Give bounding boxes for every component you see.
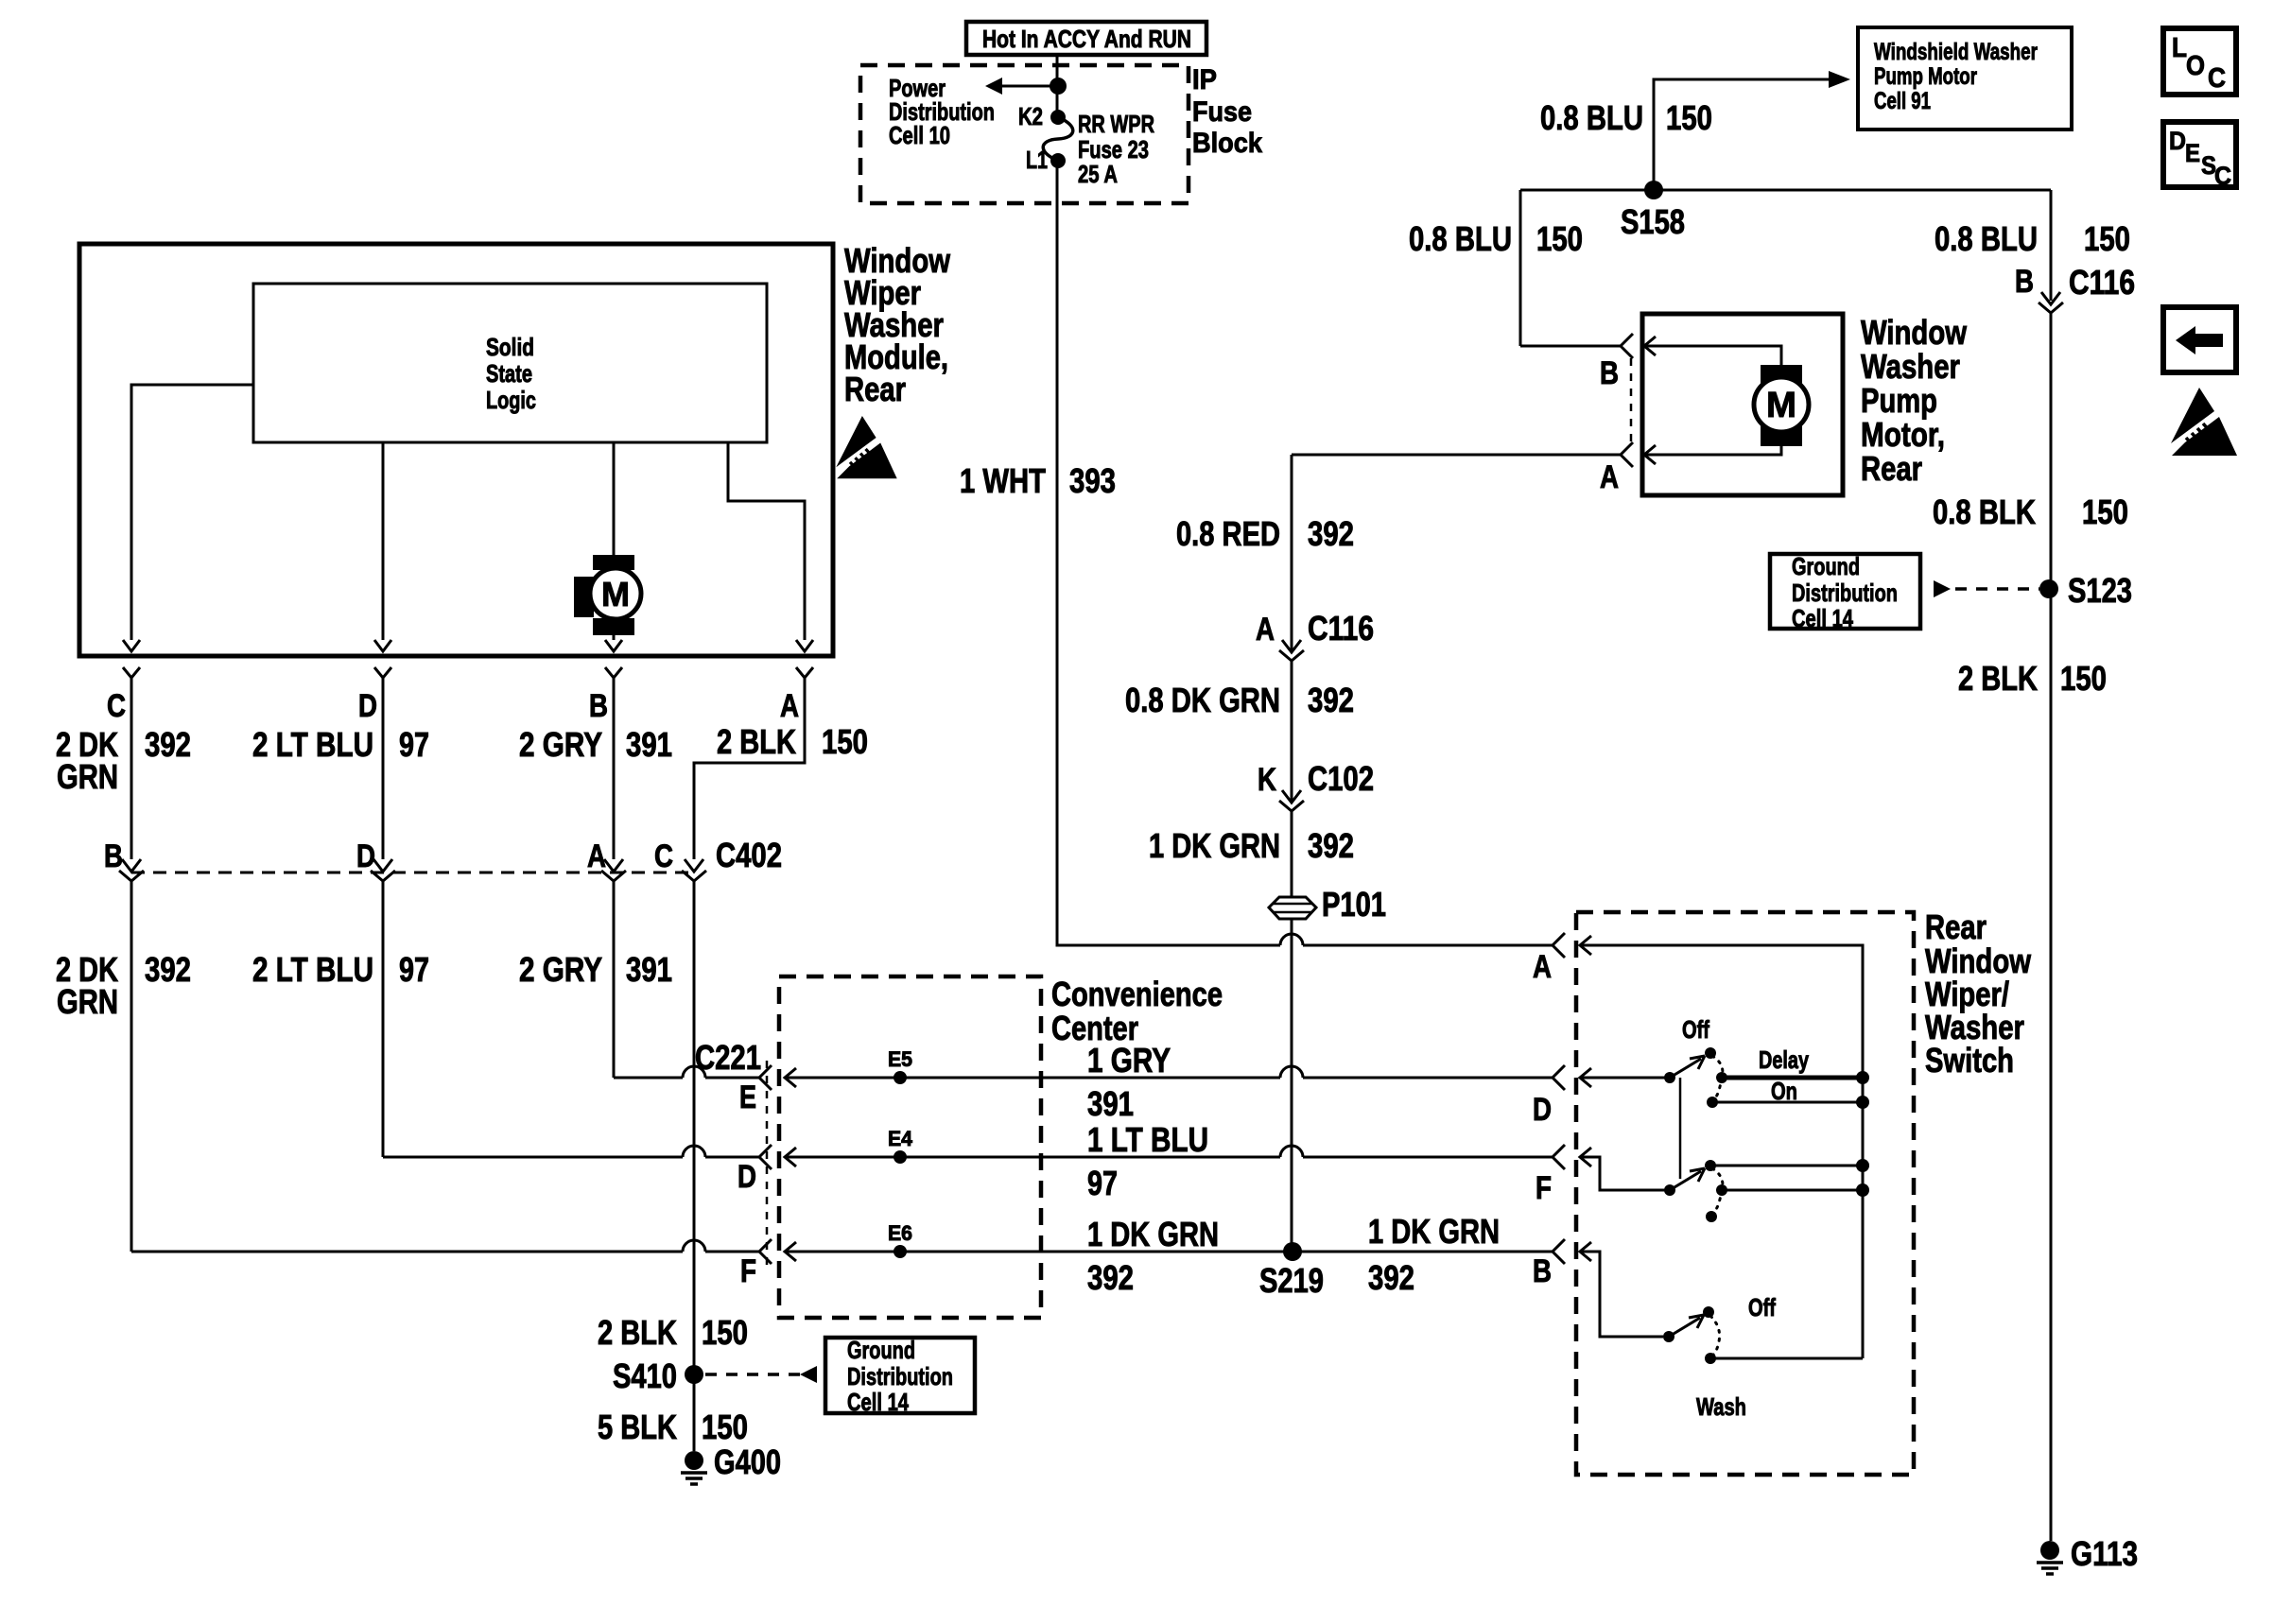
svg-text:1 DK GRN: 1 DK GRN [1368, 1212, 1500, 1251]
svg-text:Ground: Ground [847, 1336, 915, 1364]
svg-text:A: A [1533, 949, 1552, 985]
svg-text:Distribution: Distribution [847, 1362, 953, 1391]
svg-text:IP: IP [1192, 64, 1217, 95]
svg-text:5 BLK: 5 BLK [598, 1408, 677, 1446]
svg-text:A: A [780, 688, 799, 724]
svg-text:B: B [2015, 264, 2034, 300]
svg-text:C: C [107, 688, 126, 724]
svg-text:97: 97 [1087, 1164, 1118, 1202]
svg-text:Wash: Wash [1696, 1392, 1746, 1421]
svg-text:150: 150 [702, 1313, 748, 1352]
svg-text:2 GRY: 2 GRY [519, 725, 602, 764]
svg-text:C: C [2214, 162, 2231, 190]
svg-text:Motor,: Motor, [1861, 415, 1945, 454]
svg-text:0.8 BLU: 0.8 BLU [1540, 98, 1643, 137]
svg-text:E6: E6 [888, 1221, 912, 1245]
svg-text:Cell 14: Cell 14 [1792, 604, 1853, 632]
svg-text:2 BLK: 2 BLK [598, 1313, 677, 1352]
svg-text:1 DK GRN: 1 DK GRN [1149, 826, 1280, 865]
svg-text:Convenience: Convenience [1051, 975, 1223, 1013]
svg-text:150: 150 [2084, 219, 2130, 258]
svg-text:A: A [1256, 612, 1275, 648]
svg-text:Cell 91: Cell 91 [1874, 88, 1931, 114]
svg-text:S219: S219 [1259, 1261, 1324, 1300]
svg-text:GRN: GRN [57, 982, 118, 1021]
svg-text:0.8 BLU: 0.8 BLU [1935, 219, 2038, 258]
svg-text:M: M [601, 575, 630, 613]
svg-text:Solid: Solid [486, 333, 534, 361]
svg-text:B: B [1533, 1253, 1552, 1289]
svg-text:150: 150 [1536, 219, 1583, 258]
svg-text:392: 392 [1308, 826, 1354, 865]
svg-text:D: D [1533, 1092, 1552, 1128]
svg-text:Cell 14: Cell 14 [847, 1388, 909, 1416]
svg-text:0.8 BLK: 0.8 BLK [1933, 492, 2036, 531]
svg-text:L: L [2172, 33, 2187, 63]
svg-text:Block: Block [1192, 128, 1262, 159]
svg-text:2 LT BLU: 2 LT BLU [252, 725, 373, 764]
svg-text:Pump: Pump [1861, 381, 1937, 420]
svg-text:150: 150 [1666, 98, 1712, 137]
svg-text:RR WPR: RR WPR [1078, 110, 1154, 138]
svg-text:Switch: Switch [1925, 1041, 2014, 1080]
svg-text:Distribution: Distribution [1792, 579, 1898, 607]
svg-text:Pump Motor: Pump Motor [1874, 63, 1977, 90]
svg-text:Window: Window [1861, 313, 1968, 352]
svg-text:On: On [1771, 1077, 1797, 1105]
svg-text:2 BLK: 2 BLK [1958, 659, 2038, 698]
svg-text:Washer: Washer [1861, 347, 1960, 386]
svg-text:C: C [2208, 63, 2226, 94]
svg-text:150: 150 [822, 722, 868, 761]
svg-text:C221: C221 [695, 1038, 761, 1077]
svg-text:2 GRY: 2 GRY [519, 950, 602, 989]
svg-text:S410: S410 [613, 1356, 677, 1395]
svg-text:E: E [2185, 139, 2200, 167]
svg-text:D: D [737, 1159, 756, 1195]
svg-text:A: A [1600, 459, 1619, 495]
svg-text:Delay: Delay [1759, 1045, 1809, 1074]
svg-text:2 LT BLU: 2 LT BLU [252, 950, 373, 989]
svg-text:150: 150 [2060, 659, 2107, 698]
svg-text:C402: C402 [716, 836, 782, 874]
svg-text:E: E [739, 1080, 756, 1115]
svg-text:392: 392 [1368, 1258, 1414, 1297]
svg-text:1 WHT: 1 WHT [960, 461, 1046, 500]
svg-text:GRN: GRN [57, 757, 118, 796]
svg-text:Rear: Rear [844, 370, 906, 408]
svg-text:B: B [1600, 355, 1619, 391]
svg-text:1 GRY: 1 GRY [1087, 1041, 1171, 1080]
svg-text:E4: E4 [888, 1127, 913, 1150]
svg-text:D: D [358, 688, 377, 724]
svg-text:A: A [587, 838, 606, 874]
svg-text:392: 392 [145, 950, 191, 989]
svg-text:S123: S123 [2068, 571, 2132, 610]
svg-text:D: D [2169, 127, 2186, 155]
svg-text:K2: K2 [1018, 102, 1043, 130]
svg-text:1 LT BLU: 1 LT BLU [1087, 1120, 1208, 1159]
svg-text:0.8 DK GRN: 0.8 DK GRN [1125, 681, 1280, 719]
svg-text:25 A: 25 A [1078, 160, 1118, 188]
svg-text:Ground: Ground [1792, 552, 1860, 580]
svg-text:393: 393 [1069, 461, 1116, 500]
svg-text:M: M [1766, 386, 1796, 425]
svg-text:C116: C116 [2069, 263, 2135, 302]
svg-text:Cell 10: Cell 10 [889, 121, 950, 149]
svg-text:Logic: Logic [486, 386, 536, 414]
svg-text:Rear: Rear [1861, 449, 1922, 488]
svg-text:150: 150 [2082, 492, 2128, 531]
svg-text:392: 392 [1308, 514, 1354, 553]
svg-text:State: State [486, 359, 532, 388]
svg-text:97: 97 [399, 725, 429, 764]
svg-text:O: O [2186, 51, 2205, 81]
svg-text:150: 150 [702, 1408, 748, 1446]
svg-text:391: 391 [1087, 1084, 1134, 1123]
svg-text:Off: Off [1682, 1015, 1709, 1044]
svg-text:D: D [356, 838, 375, 874]
svg-text:S158: S158 [1621, 202, 1685, 241]
svg-text:G400: G400 [714, 1443, 781, 1481]
svg-text:Windshield Washer: Windshield Washer [1874, 39, 2038, 65]
svg-text:392: 392 [145, 725, 191, 764]
svg-text:G113: G113 [2071, 1534, 2138, 1573]
svg-text:E5: E5 [888, 1047, 912, 1071]
svg-text:F: F [740, 1253, 756, 1289]
svg-text:1 DK GRN: 1 DK GRN [1087, 1215, 1219, 1253]
svg-text:2 BLK: 2 BLK [717, 722, 796, 761]
svg-text:B: B [589, 688, 608, 724]
svg-text:0.8 RED: 0.8 RED [1176, 514, 1280, 553]
svg-text:392: 392 [1308, 681, 1354, 719]
svg-text:C102: C102 [1308, 759, 1374, 798]
svg-text:392: 392 [1087, 1258, 1134, 1297]
svg-text:Rear: Rear [1925, 907, 1987, 946]
svg-text:Off: Off [1748, 1293, 1776, 1322]
svg-text:97: 97 [399, 950, 429, 989]
svg-text:Fuse: Fuse [1192, 96, 1252, 128]
svg-text:C: C [654, 838, 673, 874]
svg-text:391: 391 [626, 725, 672, 764]
svg-text:0.8 BLU: 0.8 BLU [1409, 219, 1512, 258]
svg-text:B: B [104, 838, 123, 874]
svg-text:P101: P101 [1322, 885, 1386, 924]
svg-text:C116: C116 [1308, 609, 1374, 648]
svg-text:391: 391 [626, 950, 672, 989]
svg-text:F: F [1536, 1170, 1552, 1206]
svg-text:Hot In ACCY And RUN: Hot In ACCY And RUN [982, 25, 1191, 53]
svg-text:K: K [1258, 762, 1276, 798]
